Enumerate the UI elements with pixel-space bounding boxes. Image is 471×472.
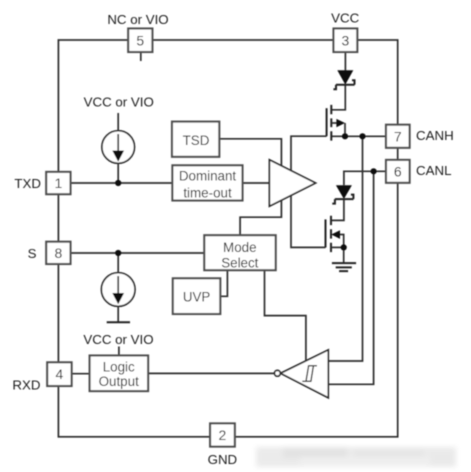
wire: UVP to Mode Select	[220, 270, 227, 296]
svg-text:7: 7	[394, 128, 402, 144]
MOSFET M1 (high side)	[327, 105, 345, 141]
I2 arrow	[117, 276, 119, 294]
receiver schmitt triangle	[281, 350, 329, 398]
wire: receiver output to Logic Output	[148, 372, 274, 374]
wire: current source I2 to ground bar	[117, 253, 119, 322]
wire: CANH line M1 source to pin7	[331, 135, 386, 137]
svg-text:NC or VIO: NC or VIO	[107, 12, 168, 27]
wire: CANL line pin6 to zener D2	[344, 171, 386, 185]
svg-text:4: 4	[56, 366, 64, 382]
pin box 3	[334, 29, 358, 53]
schmitt hysteresis glyph	[302, 366, 317, 382]
M2 source stub	[331, 246, 344, 248]
current source I2 circle	[101, 273, 135, 307]
zener diode D1	[337, 70, 353, 84]
receiver inverter bubble	[275, 370, 281, 376]
svg-text:Dominant: Dominant	[179, 168, 237, 183]
svg-text:TSD: TSD	[183, 133, 210, 148]
svg-text:Mode: Mode	[223, 240, 257, 255]
watermark smudge	[256, 447, 456, 467]
svg-text:1: 1	[55, 175, 63, 191]
svg-text:CANL: CANL	[416, 163, 451, 178]
M1 gate bar	[326, 108, 328, 136]
M1 body arrow	[331, 122, 336, 124]
pin box 7	[386, 125, 410, 148]
svg-text:TXD: TXD	[14, 176, 41, 191]
svg-text:Output: Output	[99, 374, 139, 389]
svg-text:time-out: time-out	[183, 186, 232, 201]
wire: CANL sense to receiver lower input	[328, 171, 373, 384]
pin box 4	[47, 362, 71, 386]
svg-text:8: 8	[55, 245, 63, 261]
svg-text:GND: GND	[208, 452, 238, 467]
svg-text:VCC or VIO: VCC or VIO	[84, 95, 154, 110]
zener diode D2	[336, 185, 352, 199]
current source I1 circle	[102, 131, 135, 164]
wire: Mode Select to receiver enable	[265, 270, 306, 364]
block TSD	[172, 122, 219, 157]
pin box 1	[46, 172, 70, 194]
svg-text:S: S	[28, 246, 37, 261]
block Logic Output	[90, 356, 149, 392]
wire: TXD line pin1 to Dominant time-out	[71, 182, 173, 184]
wire: CANH sense to receiver upper input	[328, 136, 362, 361]
wire: pin 5 NC stub below box	[140, 52, 142, 61]
wire: S line pin8 to Mode Select	[71, 252, 205, 254]
wire: VCC or VIO into current source I1	[117, 113, 119, 183]
svg-text:CANH: CANH	[416, 128, 454, 143]
svg-text:UVP: UVP	[183, 289, 211, 304]
svg-text:Select: Select	[221, 256, 258, 271]
pin box 8	[46, 242, 70, 264]
M2 body arrow	[331, 230, 340, 239]
svg-text:Logic: Logic	[103, 359, 135, 374]
junction dots	[115, 180, 121, 186]
wire: pin4 to Logic Output	[72, 373, 90, 375]
wire: VCC pin3 to zener D1 anode	[344, 52, 346, 70]
pin box 2	[210, 423, 235, 446]
pin box 6	[386, 160, 410, 183]
outer IC boundary box	[58, 40, 397, 437]
M1 channel dashes	[330, 105, 332, 141]
M2 gate bar	[325, 219, 327, 247]
MOSFET M2 (low side)	[326, 216, 344, 263]
wire: TSD output to Mode Select (net A)	[219, 139, 281, 235]
pin box 5	[128, 29, 152, 53]
M2 source to ground	[343, 247, 345, 263]
driver op-amp triangle	[269, 160, 315, 207]
ground bar under I2	[107, 321, 130, 323]
svg-text:5: 5	[136, 32, 144, 48]
svg-text:3: 3	[342, 32, 350, 48]
svg-text:RXD: RXD	[12, 377, 40, 392]
wire: gate drive net B top gate to bottom gate	[291, 136, 327, 247]
wire: D1 cathode to M1 drain	[331, 85, 345, 110]
wire: Dominant time-out to driver	[243, 182, 270, 184]
M2 channel dashes	[330, 216, 332, 252]
ground symbol	[332, 263, 356, 271]
block Dominant time-out	[172, 165, 242, 200]
svg-text:2: 2	[219, 427, 227, 443]
wire: VCC or VIO stub into Logic Output	[118, 347, 120, 356]
svg-text:6: 6	[394, 163, 402, 179]
block UVP	[173, 278, 221, 314]
svg-text:VCC or VIO: VCC or VIO	[83, 332, 153, 347]
svg-text:VCC: VCC	[331, 10, 359, 25]
wire: D2 cathode to M2 drain	[331, 199, 344, 220]
I1 arrow	[117, 134, 119, 151]
block Mode Select	[204, 235, 275, 270]
